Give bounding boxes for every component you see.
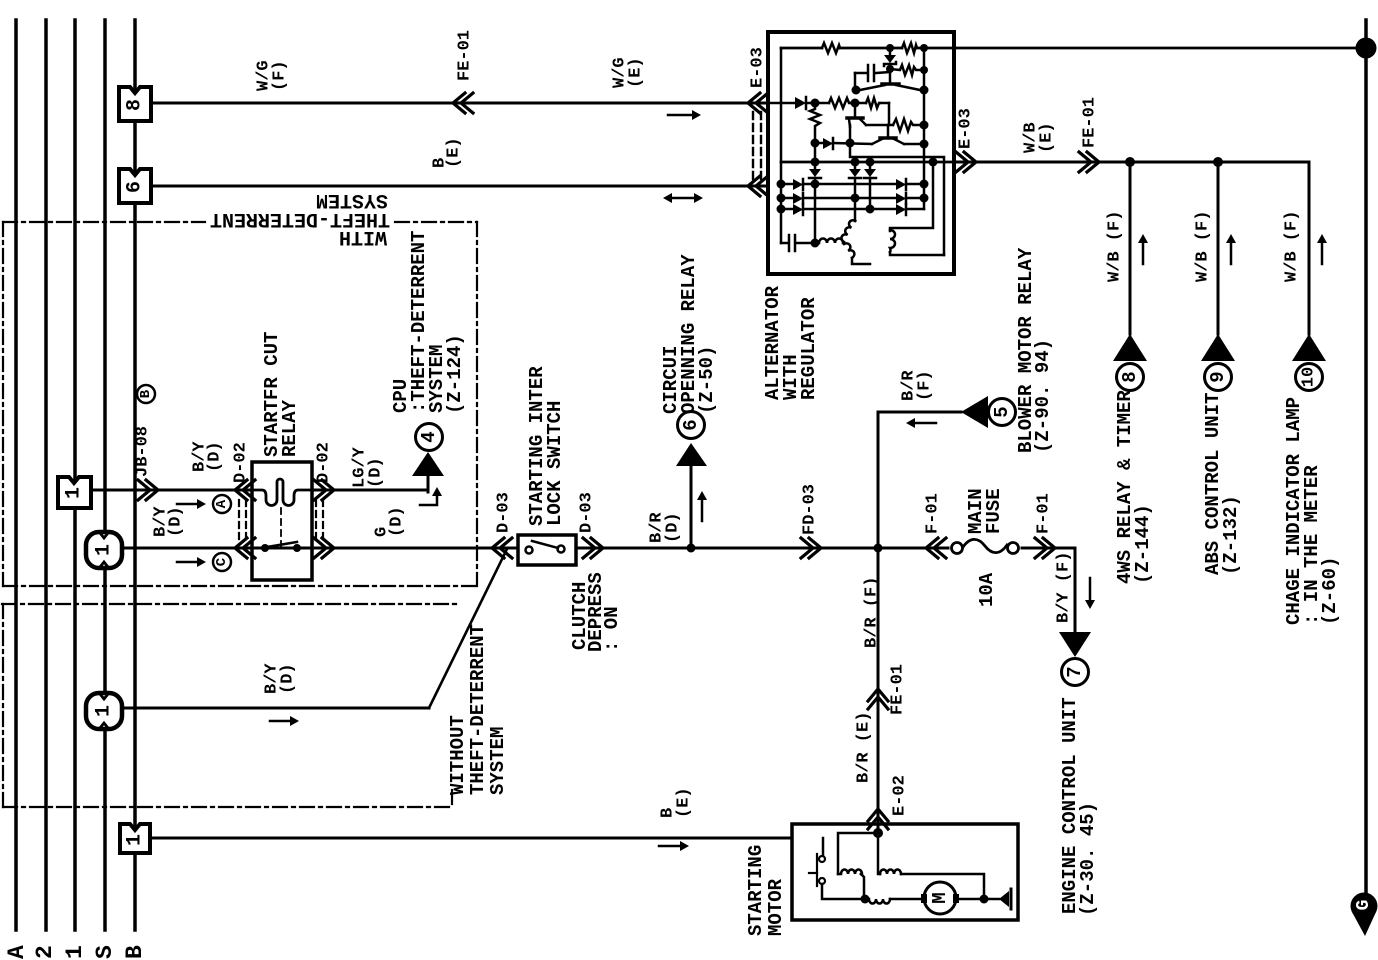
connector box 1 (starter cut feed)	[58, 477, 91, 508]
magnetic switch pull-in coil branch	[838, 833, 878, 899]
svg-text:1: 1	[124, 834, 147, 846]
connector chevron D-03 right	[583, 538, 603, 558]
svg-text:B/R (F): B/R (F)	[863, 577, 882, 648]
svg-text:(Z-50): (Z-50)	[696, 346, 718, 414]
rectifier diode positive 3	[864, 162, 876, 209]
svg-text:(D): (D)	[388, 506, 407, 537]
node motor coil junction	[861, 895, 870, 904]
wire interlock from oval 1 to junction	[122, 547, 948, 550]
connector box 6	[119, 169, 151, 203]
svg-text:SYSTEM: SYSTEM	[487, 727, 509, 795]
svg-text:(Z-60): (Z-60)	[1319, 557, 1341, 625]
svg-text:(Z-30. 45): (Z-30. 45)	[1077, 802, 1099, 916]
connector chevron E-02 down	[868, 809, 888, 829]
starting motor box	[792, 824, 1018, 920]
resistor R5	[866, 98, 880, 108]
wire right inner rail	[923, 48, 926, 209]
flow arrow 2	[1226, 234, 1236, 264]
svg-text:F-01: F-01	[924, 493, 943, 534]
starting motor switch contact	[809, 838, 862, 899]
svg-text:D-03: D-03	[578, 492, 597, 533]
node W/B drop 2	[1213, 157, 1223, 167]
flow arrow down to ECU	[1085, 578, 1095, 609]
wire drop to 4WS relay	[1129, 162, 1132, 334]
flow arrow on starting motor wire	[659, 841, 689, 851]
starting interlock switch box	[518, 535, 576, 565]
wire left inner rail	[780, 48, 783, 243]
wire to starting motor from connector 1	[150, 837, 792, 840]
off-page triangle 6	[676, 443, 707, 466]
flow arrow 1	[1138, 234, 1148, 264]
flow arrow to circled A	[177, 499, 206, 509]
internal ground symbol	[999, 889, 1011, 909]
flow arrow 3	[1317, 234, 1327, 264]
node W/B row d	[929, 158, 938, 167]
off-page triangle 8	[1113, 334, 1147, 361]
connector chevron FD-03	[801, 538, 821, 558]
node junction main feed	[874, 544, 883, 553]
svg-text:JB-08: JB-08	[134, 426, 153, 477]
svg-text:E-02: E-02	[891, 775, 910, 816]
connector chevron D-02 right on switch wire	[314, 538, 334, 558]
connector chevron D-02 left on coil wire	[235, 480, 255, 500]
without-theft area dash-dot border	[2, 604, 458, 807]
circled 5	[989, 399, 1016, 426]
diagonal wire without-theft bypass	[429, 549, 507, 708]
svg-text:8: 8	[124, 99, 147, 111]
svg-text:(D): (D)	[367, 457, 386, 488]
connector chevron E-03 on W/G wire	[748, 93, 768, 113]
svg-text:1: 1	[63, 487, 86, 499]
resistor R4	[829, 98, 852, 108]
svg-text:E-03: E-03	[957, 108, 976, 149]
wire W/G from connector 8 to alternator	[153, 102, 768, 105]
svg-text:WITHOUT: WITHOUT	[447, 715, 469, 795]
wire right ground bus	[1364, 20, 1368, 895]
circled 8	[1117, 364, 1144, 391]
circled 6	[678, 412, 705, 439]
wire stator left drop	[814, 184, 817, 243]
diode D1 on W/G input	[768, 97, 889, 109]
svg-text:1: 1	[62, 945, 88, 959]
field coil	[890, 230, 895, 252]
svg-text:FUSE: FUSE	[983, 488, 1005, 534]
connector chevron FE-01 on W/G wire	[453, 93, 473, 113]
wire W/B output to right	[954, 161, 1309, 164]
wire from connector 1 through starter cut relay coil	[91, 489, 428, 492]
flow arrow to circled C	[177, 557, 206, 567]
connector chevron E-03 output	[956, 152, 976, 172]
resistor R7	[893, 119, 924, 131]
svg-text:F-01: F-01	[1035, 493, 1054, 534]
svg-text:B/Y (F): B/Y (F)	[1055, 552, 1074, 623]
svg-text:(Z-90. 94): (Z-90. 94)	[1032, 339, 1054, 453]
connector D-02 dashed boundary	[239, 500, 323, 540]
wire sense row	[850, 143, 944, 255]
wire drop to ABS unit	[1217, 162, 1220, 334]
ground G	[1351, 893, 1378, 937]
wire top rail to output	[781, 47, 1356, 50]
svg-text:7: 7	[1064, 666, 1086, 677]
zener diode Z1	[884, 48, 896, 69]
starter cut relay box	[252, 462, 312, 580]
connector chevron E-03 on B wire	[748, 176, 768, 196]
node W/B row c	[866, 158, 875, 167]
svg-text:(F): (F)	[916, 370, 935, 401]
connector chevron D-03 left	[492, 538, 512, 558]
node rail T1	[920, 86, 929, 95]
node R4 out	[851, 99, 860, 108]
starting motor internal junction	[873, 828, 883, 838]
motor series coil	[867, 899, 890, 904]
node rail T3	[920, 140, 929, 149]
main fuse 10A	[952, 539, 1019, 553]
label WITH THEFT-DETERRENT SYSTEM (rotated 180)	[210, 188, 390, 248]
node rail R7	[920, 121, 929, 130]
bus wire B	[133, 20, 137, 930]
svg-text:(Z-132): (Z-132)	[1220, 495, 1242, 575]
wire R5 corner down	[888, 103, 891, 125]
node R6 bottom	[811, 139, 820, 148]
wire B from connector 6 to alternator	[153, 185, 768, 188]
phase row 1	[781, 179, 924, 190]
flow arrow on W/G wire	[668, 110, 701, 120]
svg-text:FE-01: FE-01	[889, 664, 908, 715]
node zener out	[886, 65, 894, 73]
svg-text:FE-01: FE-01	[456, 30, 475, 81]
field loop bottom	[890, 252, 944, 255]
svg-text:1: 1	[93, 705, 116, 717]
off-page triangle 9	[1201, 334, 1235, 361]
label CPU :THEFT-DETERRENT SYSTEM (Z-124)	[390, 231, 466, 414]
relay actuation dashed link	[280, 508, 282, 546]
svg-text:W/B (F): W/B (F)	[1283, 211, 1302, 282]
svg-text:10A: 10A	[976, 572, 998, 607]
theft-deterrent area dash-dot border (with system)	[3, 222, 477, 586]
circled 4	[416, 424, 443, 451]
connector chevron FE-01 output	[1079, 152, 1099, 172]
vertical resistor R6	[810, 103, 820, 162]
transistor T2	[847, 103, 866, 127]
starter cut relay coil	[252, 479, 312, 506]
wire down to engine control unit	[1022, 548, 1075, 632]
bus wire A	[14, 20, 18, 930]
svg-text:(D): (D)	[279, 663, 298, 694]
svg-text:(Z-124): (Z-124)	[444, 334, 466, 414]
svg-text:WITH: WITH	[339, 225, 387, 248]
node stator left	[811, 239, 820, 248]
capacitor C2	[781, 235, 815, 251]
svg-text:W/B (F): W/B (F)	[1194, 211, 1213, 282]
connector chevron D-02 right on coil wire	[314, 480, 334, 500]
svg-text:MOTOR: MOTOR	[765, 878, 787, 936]
node W/B row a	[811, 158, 820, 167]
node T3 collector	[846, 139, 855, 148]
svg-text:(D): (D)	[206, 441, 225, 472]
node top rail 1	[886, 44, 894, 52]
svg-text:THEFT-DETERRENT: THEFT-DETERRENT	[467, 624, 489, 795]
wire motor to ground	[956, 898, 999, 901]
wire output W/B row	[781, 161, 954, 164]
connector oval 1 (without-theft feed)	[86, 693, 122, 729]
rectifier diode positive 1	[809, 162, 821, 184]
label CIRCUI OPENNING RELAY (Z-50)	[660, 254, 718, 414]
node phase 3 mid	[866, 205, 875, 214]
wire up to CPU connector 4	[427, 476, 430, 492]
svg-text:(E): (E)	[675, 787, 694, 818]
node circled A	[213, 495, 231, 513]
wire down to starting motor	[877, 548, 880, 832]
transistor T3	[872, 125, 904, 144]
svg-text:6: 6	[124, 181, 147, 193]
wire T2 base row	[866, 124, 893, 127]
stator coil lower	[844, 242, 856, 258]
field winding loop	[890, 162, 933, 231]
svg-text:S: S	[92, 945, 118, 959]
svg-text:8: 8	[1119, 371, 1141, 382]
resistor R1	[822, 43, 840, 53]
node junction circuit opening relay	[687, 544, 696, 553]
connector chevron JB-08	[138, 480, 158, 500]
magnetic switch hold coil branch	[878, 833, 984, 899]
hook flow arrow under CPU wire	[420, 487, 442, 505]
wire drop to charge lamp	[1308, 162, 1311, 334]
node W/B drop 1	[1125, 157, 1135, 167]
svg-text:9: 9	[1207, 371, 1229, 382]
connector box 1 (starting motor feed)	[120, 824, 150, 853]
svg-text:E-03: E-03	[749, 47, 768, 88]
connector oval 1 (interlock feed)	[86, 532, 122, 568]
svg-text:M: M	[929, 892, 951, 903]
svg-text:STARTING: STARTING	[745, 845, 767, 936]
svg-text:: ON: : ON	[601, 606, 623, 652]
svg-text:FD-03: FD-03	[801, 484, 820, 535]
node phase 2 mid	[851, 194, 860, 203]
resistor R3	[890, 65, 924, 75]
svg-text:FE-01: FE-01	[1081, 97, 1100, 148]
svg-text:(E): (E)	[627, 57, 646, 88]
regulator internals	[768, 43, 1356, 264]
off-page triangle 7	[1059, 632, 1091, 657]
switch contacts	[526, 541, 565, 554]
svg-text:LOCK SWITCH: LOCK SWITCH	[544, 401, 566, 526]
alternator with regulator box	[768, 32, 954, 274]
svg-text:6: 6	[680, 419, 702, 430]
connector box 8	[119, 87, 151, 121]
stator coil left	[819, 239, 843, 244]
off-page triangle 5	[961, 396, 988, 428]
bus wire 2	[44, 20, 48, 930]
flow arrow up to relay	[697, 491, 707, 521]
stator coil upper	[840, 219, 855, 242]
transistor T1	[860, 69, 920, 90]
svg-text:G: G	[1354, 900, 1374, 911]
node motor ground junction	[980, 895, 989, 904]
circled 9	[1205, 364, 1232, 391]
svg-text:A: A	[4, 945, 30, 959]
svg-text:A: A	[214, 499, 230, 508]
node circled C	[213, 553, 231, 571]
connector chevron F-01 right	[1035, 538, 1055, 558]
label JB-08 circled B	[137, 385, 155, 403]
flow arrow blower	[906, 418, 936, 428]
rectifier diode positive 2	[849, 162, 861, 198]
svg-text:(Z-144): (Z-144)	[1132, 504, 1154, 584]
circled 10	[1296, 364, 1323, 391]
motor M with brushes	[924, 882, 956, 914]
phase row 3	[781, 204, 924, 215]
svg-text:(F): (F)	[271, 60, 290, 91]
wire coil to motor	[890, 898, 922, 901]
bus wire 1	[73, 20, 77, 930]
node top rail 2	[920, 44, 928, 52]
connector chevron F-01 left	[926, 538, 946, 558]
svg-text:5: 5	[991, 406, 1013, 417]
svg-text:B/R (E): B/R (E)	[855, 712, 874, 783]
flow arrow bypass	[270, 716, 299, 726]
phase row 2	[781, 193, 924, 204]
svg-text:RELAY: RELAY	[279, 399, 301, 457]
capacitor C1	[855, 65, 890, 81]
node phase 1 rail	[920, 180, 929, 189]
svg-text:(D): (D)	[664, 512, 683, 543]
svg-text:D-03: D-03	[495, 492, 514, 533]
off-page triangle 10	[1292, 334, 1326, 361]
svg-text:(E): (E)	[1038, 122, 1057, 153]
svg-text:D-02: D-02	[315, 442, 334, 483]
off-page triangle 4	[412, 452, 444, 476]
wire cap to T1 emitter	[854, 73, 857, 90]
connector chevron D-02 left on switch wire	[235, 538, 255, 558]
connector chevron FE-01 down	[868, 689, 888, 709]
flow arrow double on B wire	[663, 193, 703, 203]
svg-text:2: 2	[32, 945, 58, 959]
svg-text:B: B	[138, 389, 154, 398]
connector E-03 dashed boundary	[753, 112, 761, 180]
node phase 3 left	[777, 205, 786, 214]
svg-text:B: B	[122, 945, 148, 959]
node rail R3	[920, 66, 928, 74]
starter cut relay contact	[261, 542, 301, 552]
wire up to blower motor relay	[878, 412, 961, 548]
node W/B row b	[851, 158, 860, 167]
svg-text:W/B (F): W/B (F)	[1106, 211, 1125, 282]
wire T2 collector	[849, 125, 852, 143]
svg-text:4: 4	[418, 431, 440, 442]
svg-text:1: 1	[93, 544, 116, 556]
node alternator output to ground bus	[1356, 38, 1377, 59]
wire up to circuit opening relay	[690, 466, 693, 548]
wire from oval 1 without-theft	[122, 707, 429, 710]
wire T3 emitter to rail	[904, 143, 924, 146]
node phase 2 left	[777, 194, 786, 203]
svg-text:D-02: D-02	[232, 442, 251, 483]
label WITHOUT THEFT-DETERRENT SYSTEM	[447, 624, 509, 795]
svg-text:10: 10	[1300, 367, 1319, 387]
resistor R2	[902, 43, 917, 53]
svg-text:(D): (D)	[167, 506, 186, 537]
circled 7	[1062, 659, 1089, 686]
svg-text:C: C	[214, 557, 230, 566]
node phase 1 mid	[811, 180, 820, 189]
node T1 emitter	[852, 86, 861, 95]
node phase 2 rail	[920, 194, 929, 203]
svg-text:(E): (E)	[445, 137, 464, 168]
diode D2 row	[815, 138, 872, 149]
node phase 1 left	[777, 180, 786, 189]
node field feed	[811, 99, 820, 108]
svg-text:REGULATOR: REGULATOR	[798, 297, 820, 400]
bus wire S	[103, 20, 107, 930]
